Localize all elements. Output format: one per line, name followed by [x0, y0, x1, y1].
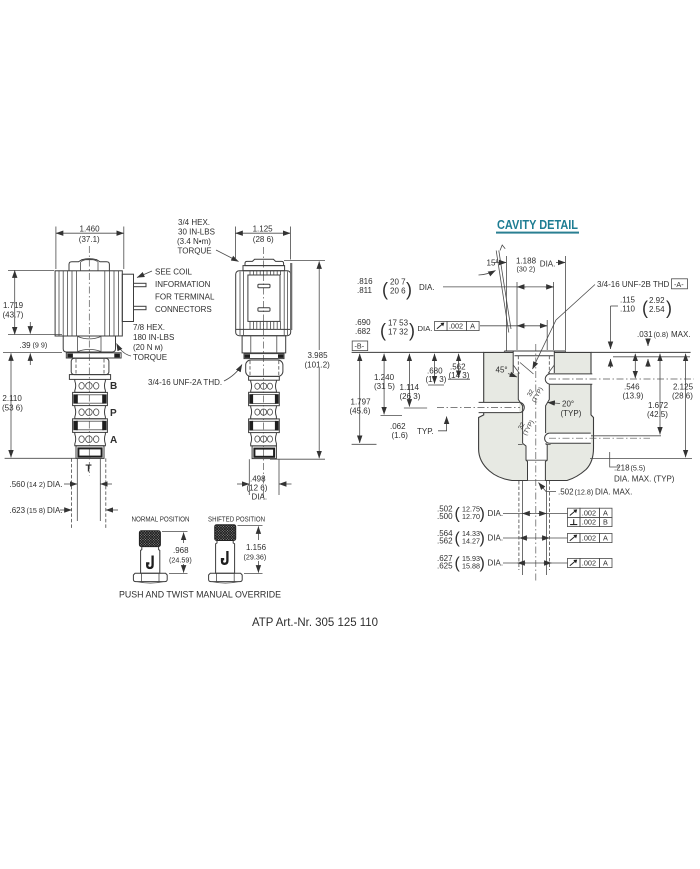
port labels B P A T [86, 381, 118, 475]
svg-text:A: A [110, 435, 117, 446]
port A centerline [549, 437, 650, 439]
svg-text:1.672: 1.672 [648, 401, 669, 410]
svg-text:-B-: -B- [355, 342, 365, 351]
svg-text:.031: .031 [637, 330, 653, 339]
svg-text:(0.8): (0.8) [654, 330, 669, 339]
note 3/4-16 UNF-2B THD with leader [533, 280, 670, 369]
svg-text:): ) [480, 505, 485, 522]
dimension 1.156 (29.36) [238, 525, 267, 573]
dimension .564/.562 (14.33/14.27) DIA. [437, 529, 568, 547]
svg-text:.115: .115 [620, 296, 636, 305]
caption PUSH AND TWIST MANUAL OVERRIDE [119, 589, 281, 600]
svg-text:(3.4 N•m): (3.4 N•m) [177, 237, 211, 246]
coil body front view [236, 263, 292, 336]
datum face line right [591, 351, 691, 353]
svg-text:): ) [480, 530, 485, 547]
cartridge upper body [71, 358, 109, 374]
svg-text:17 53: 17 53 [388, 318, 409, 327]
20 degree taper note [548, 400, 582, 419]
svg-text:B: B [603, 518, 608, 527]
svg-text:3/4 HEX.: 3/4 HEX. [178, 218, 210, 227]
dimension .498 (12.6) DIA. [237, 459, 292, 501]
left depth dims: 1.797 [350, 354, 377, 445]
svg-text:.968: .968 [173, 546, 189, 555]
caption SHIFTED POSITION [208, 515, 265, 524]
o-ring land 2 (left view) [73, 419, 108, 433]
svg-text:(13.9): (13.9) [623, 391, 644, 400]
leader .502 (12.8) DIA. MAX. [539, 483, 633, 497]
svg-text:.39: .39 [20, 341, 32, 350]
svg-text:1.125: 1.125 [253, 225, 274, 234]
svg-text:.690: .690 [355, 318, 371, 327]
svg-text:.218: .218 [614, 464, 630, 473]
svg-text:(: ( [382, 280, 388, 300]
svg-text:20 7: 20 7 [390, 277, 406, 286]
override shifted: stem and body [216, 541, 235, 574]
surface finish 32 (TYP) marks rotated [525, 383, 545, 404]
svg-text:(: ( [642, 298, 648, 318]
dimension .623 (15.8) DIA. [10, 506, 119, 515]
dimension .062 (1.6) TYP. [390, 417, 447, 440]
svg-text:.002: .002 [582, 518, 596, 527]
svg-text:(1.6): (1.6) [392, 431, 409, 440]
port channel A (right, white) [544, 433, 591, 443]
bottom step lines right [590, 436, 692, 459]
datum box -A- [672, 279, 688, 289]
svg-text:.816: .816 [357, 277, 373, 286]
svg-text:(30 2): (30 2) [517, 265, 536, 274]
svg-text:(28 6): (28 6) [672, 391, 693, 400]
svg-text:DIA. MAX. (TYP): DIA. MAX. (TYP) [614, 474, 675, 483]
svg-text:(: ( [455, 555, 461, 572]
dimension .816/.811 (20.7/20.6) DIA. [357, 277, 554, 300]
svg-text:(9 9): (9 9) [33, 341, 48, 350]
svg-text:1.797: 1.797 [351, 398, 372, 407]
nose with o-ring (front) [252, 446, 276, 459]
svg-text:.562: .562 [437, 536, 453, 545]
port channel B (right, white) [544, 374, 593, 384]
centerline right view [263, 247, 265, 500]
svg-text:MAX.: MAX. [671, 330, 691, 339]
svg-text:.811: .811 [357, 286, 373, 295]
title CAVITY DETAIL [496, 217, 579, 234]
svg-text:2.125: 2.125 [673, 382, 694, 391]
dimension .031 (0.8) MAX. [637, 330, 691, 367]
right side dim .546 (13.9) [623, 354, 644, 401]
centerline left view [88, 246, 90, 476]
svg-text:(5.5): (5.5) [631, 464, 646, 473]
svg-text:P: P [110, 408, 117, 419]
svg-text:(14 3): (14 3) [449, 371, 470, 380]
svg-text:30 IN-LBS: 30 IN-LBS [178, 228, 215, 237]
o-ring land 1 (left view) [73, 392, 108, 405]
coil name plate [248, 271, 281, 329]
tolerance box row 3: runout .002 A [568, 533, 613, 542]
svg-text:1.114: 1.114 [400, 383, 420, 392]
svg-text:): ) [406, 280, 412, 300]
svg-text:45°: 45° [496, 366, 508, 375]
svg-text:DIA.: DIA. [488, 534, 504, 543]
svg-text:-A-: -A- [674, 280, 684, 289]
svg-text:SEE COIL: SEE COIL [155, 268, 192, 277]
svg-text:TORQUE: TORQUE [178, 247, 212, 256]
svg-text:DIA.: DIA. [488, 559, 504, 568]
coil body (side view) [55, 271, 122, 336]
svg-text:(15 8): (15 8) [27, 506, 46, 515]
override normal: base nut [133, 573, 167, 583]
svg-text:(42.5): (42.5) [647, 410, 668, 419]
svg-text:(28 6): (28 6) [253, 235, 274, 244]
svg-text:(101.2): (101.2) [305, 361, 331, 370]
svg-text:1.719: 1.719 [3, 301, 24, 310]
tolerance box row 4: runout .002 A [568, 558, 613, 567]
svg-text:.002: .002 [582, 534, 596, 543]
svg-text:.546: .546 [624, 382, 640, 391]
svg-text:NORMAL POSITION: NORMAL POSITION [132, 515, 190, 524]
port P centerline [437, 407, 520, 409]
svg-text:(20 N м): (20 N м) [133, 343, 163, 352]
port section A (front) [251, 433, 277, 446]
svg-text:.500: .500 [437, 512, 453, 521]
cartridge hex collar [69, 375, 110, 380]
svg-text:.623: .623 [10, 506, 26, 515]
thread crest dashed lines 3/4-16 UNF-2B [518, 356, 549, 373]
svg-text:DIA.: DIA. [488, 509, 504, 518]
svg-text:1.240: 1.240 [374, 373, 395, 382]
svg-text:FOR TERMINAL: FOR TERMINAL [155, 293, 215, 302]
dimension 2.110 (53.6) [2, 353, 91, 458]
port section B (front) [251, 380, 277, 392]
svg-text:(: ( [455, 505, 461, 522]
terminal connector block [122, 274, 146, 321]
svg-text:15°: 15° [487, 259, 499, 268]
dimension .39 (9.9) [3, 322, 62, 365]
dimension .115/.110 (2.92/2.54) [611, 296, 673, 369]
port channel P (left, white) [478, 402, 524, 412]
svg-text:): ) [409, 321, 415, 341]
svg-text:DIA.: DIA. [47, 480, 63, 489]
caption ATP Art.-Nr. 305 125 110 [252, 615, 378, 629]
svg-text:.680: .680 [427, 366, 443, 375]
datum box -B- [352, 341, 368, 351]
left depth dims: .562 [448, 354, 470, 380]
o-ring land 2 (front) [249, 419, 280, 433]
svg-text:(45.6): (45.6) [350, 407, 371, 416]
svg-text:B: B [110, 381, 117, 392]
45 degree chamfer note [496, 366, 518, 378]
svg-text:2.54: 2.54 [649, 305, 665, 314]
svg-text:(26 3): (26 3) [400, 392, 421, 401]
port section B (left view) [75, 379, 106, 392]
7/8 hex nut (side view) [63, 336, 115, 352]
caption NORMAL POSITION [132, 515, 190, 524]
dimension .560 (14.2) DIA. [10, 480, 113, 489]
dimension 1.460 (37.1) [56, 225, 124, 270]
cavity body cross-section (grey) [479, 352, 594, 480]
svg-text:PUSH AND TWIST MANUAL OVERRIDE: PUSH AND TWIST MANUAL OVERRIDE [119, 589, 281, 600]
svg-text:14.27: 14.27 [462, 536, 480, 545]
svg-text:CAVITY DETAIL: CAVITY DETAIL [497, 217, 578, 232]
override normal: stem and body [141, 547, 160, 574]
svg-text:20 6: 20 6 [390, 286, 406, 295]
collar (front) [249, 376, 280, 380]
svg-text:15.88: 15.88 [462, 561, 480, 570]
svg-text:A: A [603, 534, 608, 543]
svg-text:.002: .002 [582, 559, 596, 568]
coil top hex nut (side view) [69, 259, 109, 271]
chamfer diagonals in thread bore [520, 363, 534, 375]
15 degree chamfer lines [479, 245, 512, 333]
coil washer with o-ring dots [66, 353, 121, 358]
tolerance box row 2: perpendicularity .002 B [568, 517, 613, 526]
svg-text:DIA.: DIA. [252, 493, 268, 502]
dimension .627/.625 (15.93/15.88) DIA. [437, 554, 568, 572]
svg-text:2.110: 2.110 [2, 394, 22, 403]
o-ring land 1 (front) [249, 392, 280, 405]
svg-text:(29.36): (29.36) [244, 553, 267, 562]
svg-text:(14 2): (14 2) [27, 480, 46, 489]
svg-text:.682: .682 [355, 327, 371, 336]
svg-text:20°: 20° [562, 400, 574, 409]
svg-text:3.985: 3.985 [308, 351, 329, 360]
boss top line (.031 raised face) [504, 351, 565, 352]
coil top cap (3/4 hex nut front) [243, 259, 285, 270]
override normal: knurled knob [139, 531, 160, 547]
port B centerline [549, 378, 694, 380]
svg-text:CONNECTORS: CONNECTORS [155, 305, 212, 314]
svg-text:.625: .625 [437, 561, 453, 570]
svg-text:2.92: 2.92 [649, 296, 665, 305]
dimension 1.188 (30.2) DIA. [494, 256, 565, 273]
override shifted: base nut [209, 573, 243, 583]
svg-text:.062: .062 [390, 422, 406, 431]
svg-text:A: A [603, 509, 608, 518]
left depth dims: 1.114 [400, 354, 428, 408]
port section A (left view) [75, 432, 106, 445]
svg-text:DIA.: DIA. [540, 260, 556, 269]
svg-text:.002: .002 [449, 322, 463, 331]
dimension 1.719 (43.7) [3, 270, 63, 334]
left depth dims: 1.240 [374, 354, 402, 416]
cartridge nose with o-ring (left view) [76, 446, 104, 459]
svg-text:.560: .560 [10, 480, 26, 489]
svg-text:): ) [666, 298, 672, 318]
svg-text:12.70: 12.70 [462, 512, 480, 521]
svg-text:TYP.: TYP. [417, 427, 434, 436]
svg-text:DIA. MAX.: DIA. MAX. [595, 488, 632, 497]
svg-text:(37.1): (37.1) [79, 235, 100, 244]
svg-text:1.156: 1.156 [246, 543, 267, 552]
svg-text:A: A [470, 322, 475, 331]
right side dim 2.125 (28.6) [672, 354, 694, 457]
svg-text:(24.59): (24.59) [169, 556, 192, 565]
svg-text:(43.7): (43.7) [3, 311, 24, 320]
note: SEE COIL INFORMATION [137, 268, 215, 315]
dimension 3.985 (101.2) [270, 260, 330, 459]
svg-text:17 32: 17 32 [388, 327, 409, 336]
svg-text:.502: .502 [558, 488, 574, 497]
dimension .968 (24.59) [162, 532, 192, 574]
right side dim 1.672 (42.5) [647, 354, 669, 435]
svg-text:DIA.: DIA. [418, 324, 433, 333]
svg-text:.002: .002 [582, 509, 596, 518]
override shifted: knurled knob [215, 525, 236, 541]
datum face line left [352, 351, 484, 353]
svg-text:(53 6): (53 6) [2, 404, 23, 413]
svg-text:(12.8): (12.8) [575, 488, 594, 497]
svg-text:(: ( [455, 530, 461, 547]
svg-text:(: ( [380, 321, 386, 341]
note: 3/4-16 UNF-2A THD. [148, 365, 242, 388]
bore centerline [535, 344, 537, 583]
cavity bore (white section cut) [513, 351, 554, 481]
svg-text:(17 3): (17 3) [426, 375, 447, 384]
note: 7/8 HEX torque [117, 323, 175, 362]
svg-text:A: A [603, 559, 608, 568]
svg-text:TORQUE: TORQUE [133, 353, 167, 362]
hidden nose extension lines below left view [72, 458, 106, 529]
7/8 nut front view [242, 336, 286, 353]
svg-text:1.460: 1.460 [80, 225, 101, 234]
cartridge capsule body (front) [246, 360, 283, 376]
svg-text:T: T [86, 464, 92, 475]
dimension 1.125 (28.6) [235, 225, 290, 260]
svg-text:.498: .498 [250, 475, 266, 484]
svg-text:ATP Art.-Nr. 305 125 110: ATP Art.-Nr. 305 125 110 [252, 615, 378, 629]
note: 3/4 HEX torque [177, 218, 239, 262]
svg-text:3/4-16 UNF-2B THD: 3/4-16 UNF-2B THD [597, 280, 670, 289]
dimension .502/.500 (12.75/12.70) DIA. [437, 504, 568, 522]
bore extension lines below cavity [519, 481, 550, 575]
port section P (left view) [75, 406, 106, 419]
svg-text:180 IN-LBS: 180 IN-LBS [133, 333, 174, 342]
dimension .690/.682 (17.53/17.32) DIA. with runout box [355, 318, 547, 341]
dimension .218 (5.5) DIA. MAX. (TYP) [610, 452, 675, 483]
svg-text:.110: .110 [620, 305, 636, 314]
tolerance box row 1: runout .002 A [568, 508, 613, 517]
svg-text:INFORMATION: INFORMATION [155, 280, 211, 289]
svg-text:(31 5): (31 5) [374, 382, 395, 391]
svg-text:DIA.: DIA. [47, 506, 63, 515]
svg-text:7/8 HEX.: 7/8 HEX. [133, 323, 165, 332]
extension lines above cavity [506, 256, 565, 351]
svg-text:SHIFTED POSITION: SHIFTED POSITION [208, 515, 265, 524]
port section P (front) [251, 406, 277, 419]
left depth dims: .680 [426, 354, 447, 385]
spotface step line right (.115) [613, 356, 690, 358]
svg-text:DIA.: DIA. [419, 283, 435, 292]
svg-text:): ) [480, 555, 485, 572]
washer with o-ring dots (front) [244, 354, 284, 359]
svg-text:(TYP): (TYP) [561, 409, 582, 418]
svg-text:(12 6): (12 6) [247, 484, 268, 493]
svg-text:3/4-16 UNF-2A THD.: 3/4-16 UNF-2A THD. [148, 378, 222, 387]
